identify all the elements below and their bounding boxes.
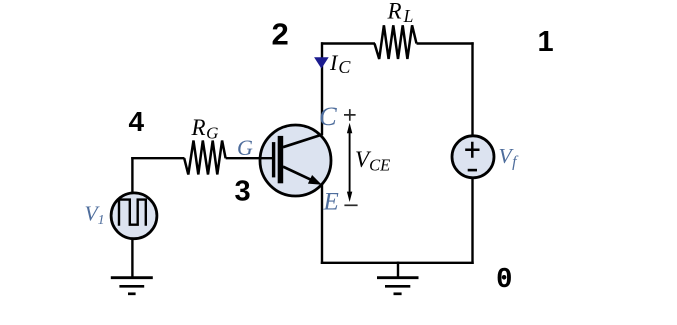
VCE arrow line xyxy=(349,128,351,197)
VCE arrowhead bottom xyxy=(347,192,352,202)
svg-text:E: E xyxy=(323,189,339,216)
wire V1 bottom vertical (V1 down to ground) xyxy=(131,238,133,278)
ground GND2 bar 3 xyxy=(394,292,402,295)
transistor Q1 emitter arrowhead xyxy=(308,175,322,185)
svg-text:IC: IC xyxy=(329,50,351,77)
wire top left lead (node 2 to RL) xyxy=(321,42,375,44)
transistor Q1 collector stroke xyxy=(283,135,322,148)
svg-text:RL: RL xyxy=(387,0,414,26)
svg-text:2: 2 xyxy=(272,17,289,52)
wire gate left lead (node 4 corner to RG) xyxy=(131,157,184,159)
source Vf plus sign xyxy=(465,142,479,158)
ground GND1 bar 2 xyxy=(119,285,144,288)
transistor Q1 base bar thick xyxy=(278,136,284,183)
wire V1 top vertical (corner down to V1) xyxy=(131,157,133,194)
svg-text:G: G xyxy=(237,135,253,160)
VCE plus sign xyxy=(344,109,356,121)
wire top right lead (RL to node 1 corner) xyxy=(417,42,474,44)
ground GND2 stem xyxy=(397,262,399,278)
svg-text:VCE: VCE xyxy=(355,147,390,175)
wire collector vertical (node 2 down to IGBT C) xyxy=(321,42,323,135)
source V1 square wave symbol xyxy=(119,200,146,226)
source Vf minus sign xyxy=(468,169,477,172)
node 0 zero dot xyxy=(502,275,507,280)
source Vf body xyxy=(452,136,494,178)
wire gate right lead (RG to IGBT gate) xyxy=(226,157,273,159)
svg-text:4: 4 xyxy=(129,106,145,137)
current arrow IC xyxy=(314,57,329,68)
svg-text:3: 3 xyxy=(235,176,251,208)
transistor Q1 emitter stroke xyxy=(283,167,313,181)
ground GND2 bar 1 xyxy=(377,276,419,279)
VCE arrowhead top xyxy=(347,123,352,133)
wire right vertical lower (Vf down to bottom wire) xyxy=(471,177,473,265)
ground GND1 bar 3 xyxy=(128,292,136,295)
resistor RL xyxy=(375,25,417,59)
svg-text:C: C xyxy=(319,101,337,131)
source V1 body xyxy=(111,193,157,239)
wire right vertical upper (node 1 down to Vf) xyxy=(471,42,473,137)
svg-text:Vf: Vf xyxy=(499,144,520,171)
transistor Q1 gate bar thin xyxy=(272,142,275,177)
VCE minus sign xyxy=(344,204,357,206)
ground GND1 bar 1 xyxy=(111,276,153,279)
svg-text:1: 1 xyxy=(538,26,554,58)
svg-text:RG: RG xyxy=(191,115,219,143)
wire emitter vertical (IGBT E down to bottom wire) xyxy=(321,184,323,264)
resistor RG xyxy=(184,141,225,175)
ground GND2 bar 2 xyxy=(385,285,410,288)
svg-text:V1: V1 xyxy=(85,202,105,229)
transistor Q1 IGBT body xyxy=(260,125,331,196)
wire bottom (node 0 net) xyxy=(321,262,474,264)
